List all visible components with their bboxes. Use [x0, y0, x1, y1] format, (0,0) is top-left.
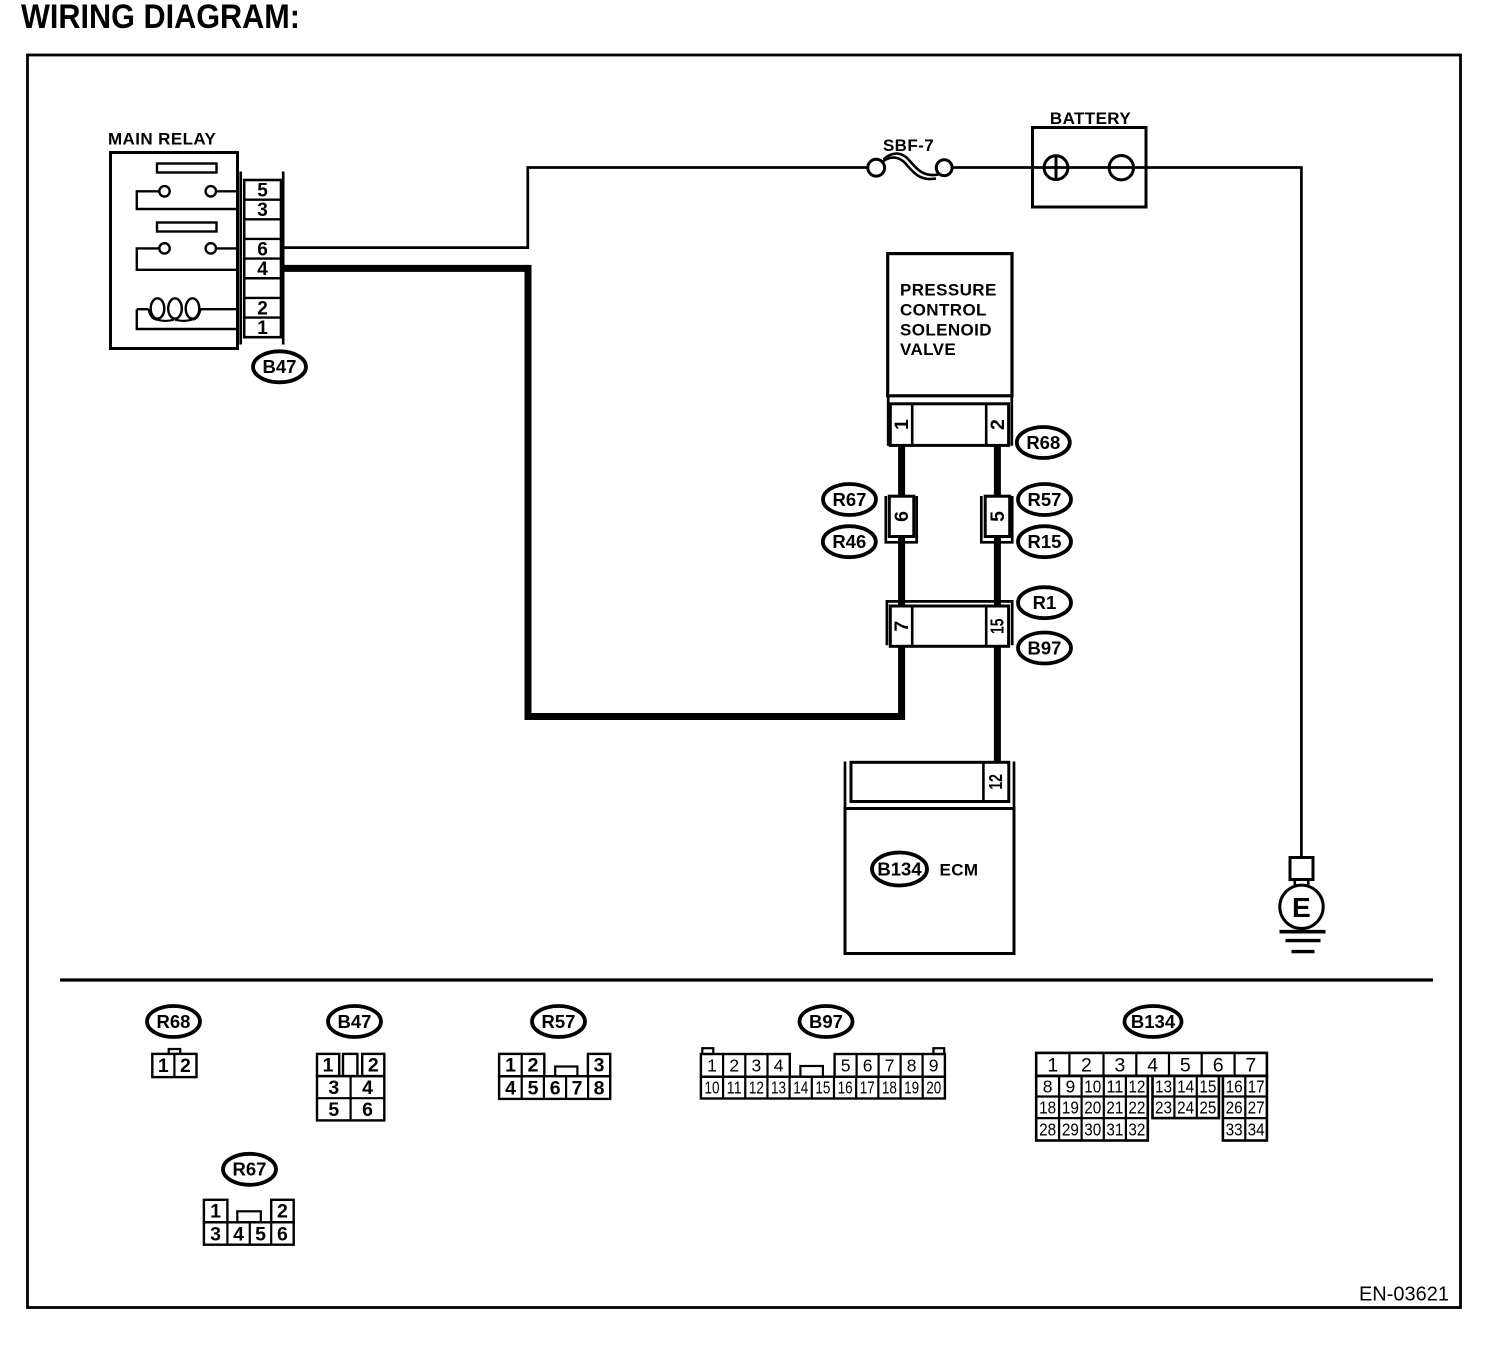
svg-text:13: 13 — [771, 1078, 786, 1098]
svg-text:4: 4 — [233, 1223, 244, 1245]
svg-text:5: 5 — [255, 1223, 266, 1245]
svg-text:32: 32 — [1128, 1120, 1145, 1140]
svg-text:20: 20 — [926, 1078, 941, 1098]
svg-text:E: E — [1292, 892, 1311, 923]
svg-text:1: 1 — [1047, 1054, 1058, 1076]
svg-text:2: 2 — [528, 1055, 539, 1077]
svg-text:15: 15 — [815, 1078, 830, 1098]
svg-text:23: 23 — [1155, 1098, 1172, 1118]
svg-text:16: 16 — [1226, 1076, 1243, 1096]
svg-text:R1: R1 — [1033, 592, 1057, 613]
svg-text:7: 7 — [1245, 1054, 1256, 1076]
svg-text:18: 18 — [882, 1078, 897, 1098]
svg-text:1: 1 — [210, 1201, 221, 1223]
svg-text:12: 12 — [749, 1078, 764, 1098]
svg-text:1: 1 — [158, 1055, 169, 1077]
svg-text:R46: R46 — [832, 531, 866, 552]
svg-text:B47: B47 — [263, 356, 297, 377]
svg-text:2: 2 — [729, 1055, 739, 1075]
svg-text:15: 15 — [988, 618, 1008, 634]
svg-text:17: 17 — [1248, 1076, 1265, 1096]
svg-text:5: 5 — [328, 1099, 339, 1121]
svg-text:4: 4 — [362, 1077, 373, 1099]
svg-text:6: 6 — [863, 1055, 873, 1075]
svg-text:B134: B134 — [1131, 1011, 1176, 1032]
svg-text:18: 18 — [1039, 1098, 1056, 1118]
svg-text:1: 1 — [323, 1055, 334, 1077]
svg-text:19: 19 — [904, 1078, 919, 1098]
svg-text:6: 6 — [891, 511, 913, 522]
svg-text:14: 14 — [1177, 1076, 1194, 1096]
svg-text:13: 13 — [1155, 1076, 1172, 1096]
svg-text:5: 5 — [841, 1055, 851, 1075]
svg-text:5: 5 — [1180, 1054, 1191, 1076]
svg-text:8: 8 — [594, 1077, 605, 1099]
svg-text:10: 10 — [704, 1078, 719, 1098]
svg-text:17: 17 — [860, 1078, 875, 1098]
svg-text:19: 19 — [1062, 1098, 1079, 1118]
svg-text:R67: R67 — [833, 489, 867, 510]
svg-text:PRESSURE: PRESSURE — [900, 281, 997, 300]
svg-text:2: 2 — [987, 419, 1009, 430]
svg-text:B97: B97 — [809, 1011, 843, 1032]
svg-text:3: 3 — [328, 1077, 339, 1099]
svg-text:6: 6 — [277, 1223, 288, 1245]
svg-text:27: 27 — [1248, 1098, 1265, 1118]
svg-text:8: 8 — [907, 1055, 917, 1075]
svg-text:R68: R68 — [157, 1011, 191, 1032]
svg-text:R67: R67 — [233, 1159, 267, 1180]
svg-text:4: 4 — [1147, 1054, 1158, 1076]
svg-text:3: 3 — [752, 1055, 762, 1075]
svg-text:3: 3 — [1114, 1054, 1125, 1076]
svg-text:10: 10 — [1084, 1076, 1101, 1096]
svg-text:2: 2 — [180, 1055, 191, 1077]
svg-text:6: 6 — [362, 1099, 373, 1121]
svg-text:MAIN RELAY: MAIN RELAY — [108, 130, 216, 149]
svg-text:20: 20 — [1084, 1098, 1101, 1118]
svg-text:2: 2 — [1081, 1054, 1092, 1076]
svg-text:5: 5 — [528, 1077, 539, 1099]
svg-text:24: 24 — [1177, 1098, 1194, 1118]
svg-text:4: 4 — [257, 259, 268, 280]
svg-text:4: 4 — [774, 1055, 784, 1075]
svg-text:B134: B134 — [877, 858, 922, 879]
svg-text:SOLENOID: SOLENOID — [900, 320, 992, 339]
svg-text:11: 11 — [727, 1078, 742, 1098]
svg-text:7: 7 — [891, 621, 913, 632]
svg-text:12: 12 — [1128, 1076, 1145, 1096]
svg-text:B47: B47 — [338, 1011, 372, 1032]
svg-text:R57: R57 — [1028, 489, 1062, 510]
svg-text:31: 31 — [1106, 1120, 1123, 1140]
svg-text:8: 8 — [1043, 1076, 1053, 1096]
svg-text:16: 16 — [838, 1078, 853, 1098]
svg-text:3: 3 — [257, 200, 268, 221]
svg-text:5: 5 — [987, 511, 1009, 522]
svg-text:2: 2 — [368, 1055, 379, 1077]
svg-text:6: 6 — [550, 1077, 561, 1099]
svg-text:R57: R57 — [542, 1011, 576, 1032]
svg-text:1: 1 — [505, 1055, 516, 1077]
svg-text:2: 2 — [257, 298, 268, 319]
svg-text:28: 28 — [1039, 1120, 1056, 1140]
svg-text:WIRING DIAGRAM:: WIRING DIAGRAM: — [21, 0, 300, 36]
svg-text:R15: R15 — [1028, 531, 1062, 552]
svg-text:33: 33 — [1226, 1120, 1243, 1140]
svg-text:26: 26 — [1226, 1098, 1243, 1118]
svg-text:BATTERY: BATTERY — [1050, 109, 1131, 128]
svg-text:29: 29 — [1062, 1120, 1079, 1140]
svg-text:1: 1 — [707, 1055, 717, 1075]
svg-text:7: 7 — [572, 1077, 583, 1099]
svg-text:22: 22 — [1128, 1098, 1145, 1118]
svg-text:9: 9 — [929, 1055, 939, 1075]
svg-text:9: 9 — [1065, 1076, 1075, 1096]
svg-text:6: 6 — [1213, 1054, 1224, 1076]
svg-text:4: 4 — [505, 1077, 516, 1099]
svg-text:R68: R68 — [1026, 432, 1060, 453]
svg-text:1: 1 — [257, 318, 268, 339]
svg-text:34: 34 — [1248, 1120, 1265, 1140]
svg-text:25: 25 — [1199, 1098, 1216, 1118]
svg-text:30: 30 — [1084, 1120, 1101, 1140]
svg-text:SBF-7: SBF-7 — [883, 136, 934, 155]
svg-text:12: 12 — [986, 774, 1006, 790]
svg-text:ECM: ECM — [940, 860, 979, 879]
svg-text:15: 15 — [1199, 1076, 1216, 1096]
svg-text:1: 1 — [891, 419, 913, 430]
svg-text:21: 21 — [1106, 1098, 1123, 1118]
svg-text:VALVE: VALVE — [900, 340, 956, 359]
svg-text:2: 2 — [277, 1201, 288, 1223]
svg-text:EN-03621: EN-03621 — [1359, 1284, 1449, 1306]
svg-text:14: 14 — [793, 1078, 808, 1098]
svg-text:B97: B97 — [1028, 637, 1062, 658]
svg-text:7: 7 — [885, 1055, 895, 1075]
svg-text:6: 6 — [257, 239, 268, 260]
svg-text:3: 3 — [594, 1055, 605, 1077]
svg-text:5: 5 — [257, 180, 268, 201]
svg-text:CONTROL: CONTROL — [900, 300, 987, 319]
svg-text:11: 11 — [1106, 1076, 1123, 1096]
svg-text:3: 3 — [210, 1223, 221, 1245]
